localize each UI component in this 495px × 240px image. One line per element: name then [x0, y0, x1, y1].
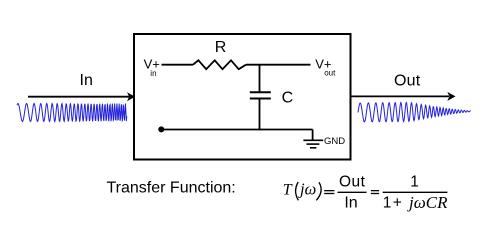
formula fraction 1 over 1+jwCR	[383, 174, 448, 212]
formula equals 2	[371, 190, 379, 194]
node Vin label	[144, 57, 160, 78]
svg-text:Out: Out	[339, 174, 366, 191]
svg-text:R: R	[215, 39, 227, 56]
svg-text:Out: Out	[394, 72, 421, 89]
svg-text:Transfer Function:: Transfer Function:	[107, 180, 236, 197]
label R	[215, 39, 227, 56]
formula equals 1	[324, 190, 334, 194]
caption Transfer Function	[107, 180, 236, 197]
capacitor C	[250, 92, 271, 98]
wire capacitor to ground rail	[259, 99, 261, 131]
svg-text:jωCR: jωCR	[407, 193, 448, 212]
formula fraction Out/In	[338, 174, 367, 212]
svg-text:out: out	[324, 68, 336, 77]
svg-text:in: in	[150, 69, 156, 78]
node Out label	[394, 72, 421, 89]
ground	[303, 140, 323, 148]
svg-text:1: 1	[410, 174, 419, 191]
resistor R	[193, 60, 246, 69]
label GND	[324, 136, 345, 147]
wire resistor to Vout	[246, 64, 311, 66]
label C	[282, 90, 294, 107]
svg-text:C: C	[282, 90, 294, 107]
output signal waveform	[358, 103, 471, 122]
svg-text:In: In	[80, 72, 93, 89]
svg-text:1+: 1+	[383, 195, 404, 212]
node In label	[80, 72, 93, 89]
junction dot	[158, 126, 164, 132]
svg-text:In: In	[344, 195, 357, 212]
node Vout label	[315, 57, 336, 78]
ground rail wire	[161, 129, 312, 131]
input signal waveform	[17, 104, 127, 122]
svg-text:T: T	[283, 182, 293, 199]
wire Vin to resistor	[162, 64, 194, 66]
filter box	[134, 34, 351, 160]
wire junction to capacitor	[259, 65, 261, 93]
formula T(jw)	[283, 180, 321, 201]
wire to ground symbol	[312, 130, 314, 141]
svg-text:jω: jω	[298, 180, 316, 199]
svg-text:GND: GND	[324, 136, 345, 147]
wire Out arrow	[351, 92, 456, 101]
wire In arrow	[28, 92, 135, 101]
